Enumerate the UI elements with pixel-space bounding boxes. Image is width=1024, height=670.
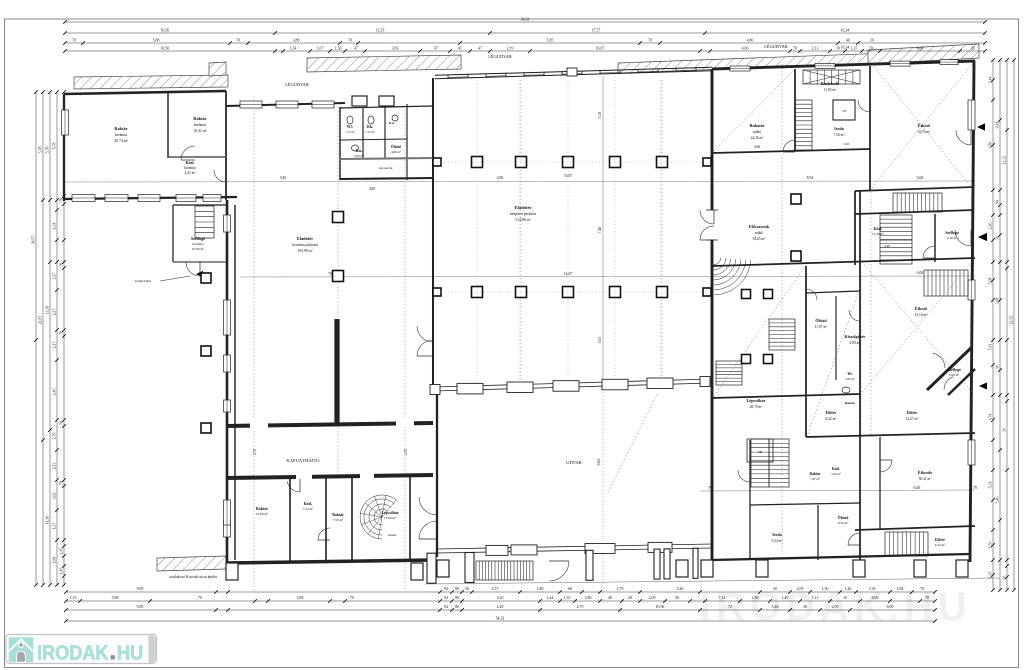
svg-text:78: 78 [60,481,64,485]
svg-text:20: 20 [971,46,975,50]
svg-text:50: 50 [675,596,679,600]
svg-text:70: 70 [973,486,977,490]
svg-text:LÉGUDVAR: LÉGUDVAR [764,44,788,49]
svg-text:47: 47 [478,46,482,50]
svg-text:Lépcsőház: Lépcsőház [747,398,766,403]
svg-text:kerámia: kerámia [115,133,128,137]
svg-text:Eladótér: Eladótér [514,205,531,210]
svg-text:Iroda: Iroda [834,126,843,131]
svg-text:94: 94 [444,605,448,609]
svg-text:70: 70 [350,596,354,600]
svg-text:10: 10 [996,365,1000,369]
svg-text:Közl.: Közl. [186,160,195,165]
svg-text:78: 78 [60,263,64,267]
svg-text:78: 78 [60,421,64,425]
svg-text:70: 70 [72,38,76,42]
svg-text:Ruhatár: Ruhatár [749,123,764,128]
svg-text:KAPUÁTHAJTÓ: KAPUÁTHAJTÓ [286,458,320,463]
svg-text:Közl.: Közl. [304,502,313,506]
svg-text:94: 94 [996,200,1000,204]
svg-text:40: 40 [846,38,850,42]
svg-text:30: 30 [1003,428,1007,432]
svg-text:Étkezde: Étkezde [918,470,933,475]
svg-text:Kts.: Kts. [389,121,395,125]
svg-text:70: 70 [236,38,240,42]
svg-text:érzékelőkés: érzékelőkés [135,279,152,283]
svg-text:Szélfogó: Szélfogó [945,231,959,235]
svg-text:IRODAK.HU: IRODAK.HU [700,585,972,629]
svg-text:Közl.: Közl. [832,467,840,471]
svg-text:70: 70 [328,272,332,276]
svg-text:47: 47 [354,46,358,50]
svg-text:70: 70 [869,46,873,50]
svg-text:30: 30 [996,236,1000,240]
svg-text:Km.: Km. [356,149,363,153]
svg-text:kerámia parketta: kerámia parketta [292,243,318,247]
svg-text:Raktár: Raktár [332,513,344,517]
svg-text:80: 80 [455,596,459,600]
svg-text:80: 80 [455,587,459,591]
svg-text:Öltöző: Öltöző [391,144,401,149]
svg-text:Raktár: Raktár [114,126,127,131]
svg-text:56: 56 [465,587,469,591]
svg-text:Étkező: Étkező [918,123,930,128]
svg-text:SB: SB [758,450,763,454]
svg-text:70: 70 [198,596,202,600]
svg-text:41: 41 [458,46,462,50]
svg-text:Öltöző: Öltöző [815,318,826,323]
svg-text:20: 20 [870,38,874,42]
svg-text:40: 40 [608,596,612,600]
svg-text:80: 80 [455,605,459,609]
svg-text:Wc: Wc [847,372,853,376]
svg-text:Kiszolgáltér: Kiszolgáltér [845,334,866,339]
svg-text:Eladótér: Eladótér [297,236,313,241]
svg-text:Öltöző: Öltöző [838,515,849,520]
svg-text:UDVAR: UDVAR [566,460,583,465]
svg-text:10: 10 [836,46,840,50]
svg-text:Raktár: Raktár [845,401,856,405]
svg-text:Raktár: Raktár [810,472,821,476]
svg-text:pihenő: pihenő [388,533,397,537]
svg-text:Raktár: Raktár [256,506,268,511]
svg-text:beépített parketta: beépített parketta [510,212,537,216]
svg-text:kerámia: kerámia [192,242,204,246]
svg-text:HU: HU [117,643,144,665]
svg-text:kerámia: kerámia [194,123,207,127]
svg-text:LÉGUDVAR: LÉGUDVAR [488,54,512,59]
svg-text:Iroda: Iroda [772,532,781,537]
svg-text:20: 20 [628,596,632,600]
svg-text:Előtér: Előtér [826,410,837,415]
svg-text:Szélfogó: Szélfogó [191,236,205,241]
svg-text:Közlekedő: Közlekedő [821,81,839,86]
svg-text:70: 70 [648,38,652,42]
svg-text:kerámia: kerámia [184,166,196,170]
svg-text:Kls.: Kls. [367,125,373,129]
svg-text:70: 70 [348,38,352,42]
svg-text:mûkő: mûkő [753,130,761,134]
svg-text:mûkő: mûkő [755,231,763,235]
svg-text:78: 78 [60,331,64,335]
svg-text:IRODAK: IRODAK [37,643,109,665]
svg-text:Közl.: Közl. [874,227,883,231]
svg-text:Előtér: Előtér [935,538,945,542]
svg-text:WC: WC [347,125,354,129]
svg-text:Előtér: Előtér [907,410,918,415]
svg-text:LÉGUDVAR: LÉGUDVAR [285,82,309,87]
svg-text:94: 94 [444,596,448,600]
svg-text:68: 68 [568,587,572,591]
svg-text:Előcsarnok: Előcsarnok [749,224,770,229]
svg-text:Étkező: Étkező [915,306,927,311]
svg-text:30: 30 [1003,576,1007,580]
svg-text:tak.szer.tár.: tak.szer.tár. [379,166,394,170]
svg-text:94: 94 [444,587,448,591]
svg-text:Raktár: Raktár [193,116,206,121]
svg-text:Szélfogó: Szélfogó [947,368,961,372]
svg-text:70: 70 [793,46,797,50]
svg-text:47: 47 [434,46,438,50]
svg-text:csatlakozó Kossuth utcai épüle: csatlakozó Kossuth utcai épület [169,575,218,579]
